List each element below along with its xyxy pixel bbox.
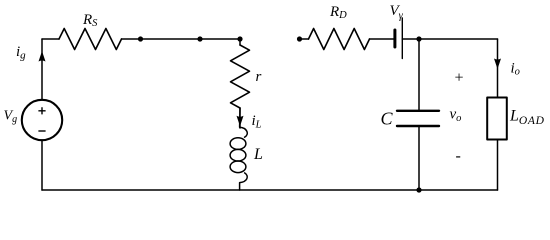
svg-text:iL: iL xyxy=(252,113,262,131)
capacitor C bottom plate xyxy=(397,125,439,127)
wire: right vertical to load (io segment) xyxy=(497,39,499,98)
arrowhead io (down) xyxy=(494,59,501,70)
arrowhead iL (down) xyxy=(237,116,244,127)
source minus sign xyxy=(38,130,45,132)
svg-text:ig: ig xyxy=(16,44,26,62)
wire: source bottom xyxy=(41,140,43,190)
svg-text:vo: vo xyxy=(450,107,462,125)
junction node after RS xyxy=(138,36,143,41)
load resistor LOAD (rectangle) xyxy=(487,98,507,140)
resistor RD xyxy=(309,29,370,50)
svg-text:LOAD: LOAD xyxy=(509,108,545,128)
arrowhead ig (up) xyxy=(39,51,46,62)
wire: RD to battery xyxy=(370,38,394,40)
junction node capacitor bottom xyxy=(416,187,421,192)
wire: source top to node (left vertical) xyxy=(41,39,43,100)
battery V_gamma positive plate (long thin) xyxy=(401,18,403,59)
wire: RS to node of r xyxy=(122,38,241,40)
junction node mid top rail xyxy=(197,36,202,41)
wire: capacitor bottom to rail xyxy=(418,127,420,190)
capacitor C top plate xyxy=(397,110,439,112)
svg-text:Vg: Vg xyxy=(4,109,18,126)
wire: stub node to resistor r xyxy=(239,39,241,45)
svg-text:RS: RS xyxy=(82,12,98,29)
inductor L xyxy=(230,108,247,190)
junction node at r top xyxy=(237,36,242,41)
wire: top rail from source to RS xyxy=(42,38,59,40)
resistor r xyxy=(231,45,250,108)
svg-text:L: L xyxy=(253,146,263,163)
svg-text:-: - xyxy=(456,148,461,165)
battery V_gamma negative plate (short thick) xyxy=(393,30,396,47)
wire: node to right corner xyxy=(419,38,498,40)
wire: r to inductor (iL segment) xyxy=(239,108,241,128)
svg-text:Vγ: Vγ xyxy=(390,3,404,22)
svg-text:RD: RD xyxy=(329,4,347,21)
source plus sign xyxy=(38,107,45,114)
svg-text:C: C xyxy=(381,109,394,129)
source Vg circle xyxy=(22,100,62,140)
svg-text:io: io xyxy=(511,61,520,78)
wire: node to capacitor top xyxy=(418,39,420,110)
svg-text:+: + xyxy=(454,70,465,87)
resistor RS xyxy=(59,29,122,50)
junction node after battery xyxy=(416,36,421,41)
wire: load bottom to rail xyxy=(497,140,499,191)
wire: RD input stub xyxy=(300,38,309,40)
svg-text:r: r xyxy=(256,69,262,85)
wire: battery to node xyxy=(402,38,419,40)
node terminal at RD input xyxy=(297,36,302,41)
wire: bottom rail xyxy=(42,189,498,191)
